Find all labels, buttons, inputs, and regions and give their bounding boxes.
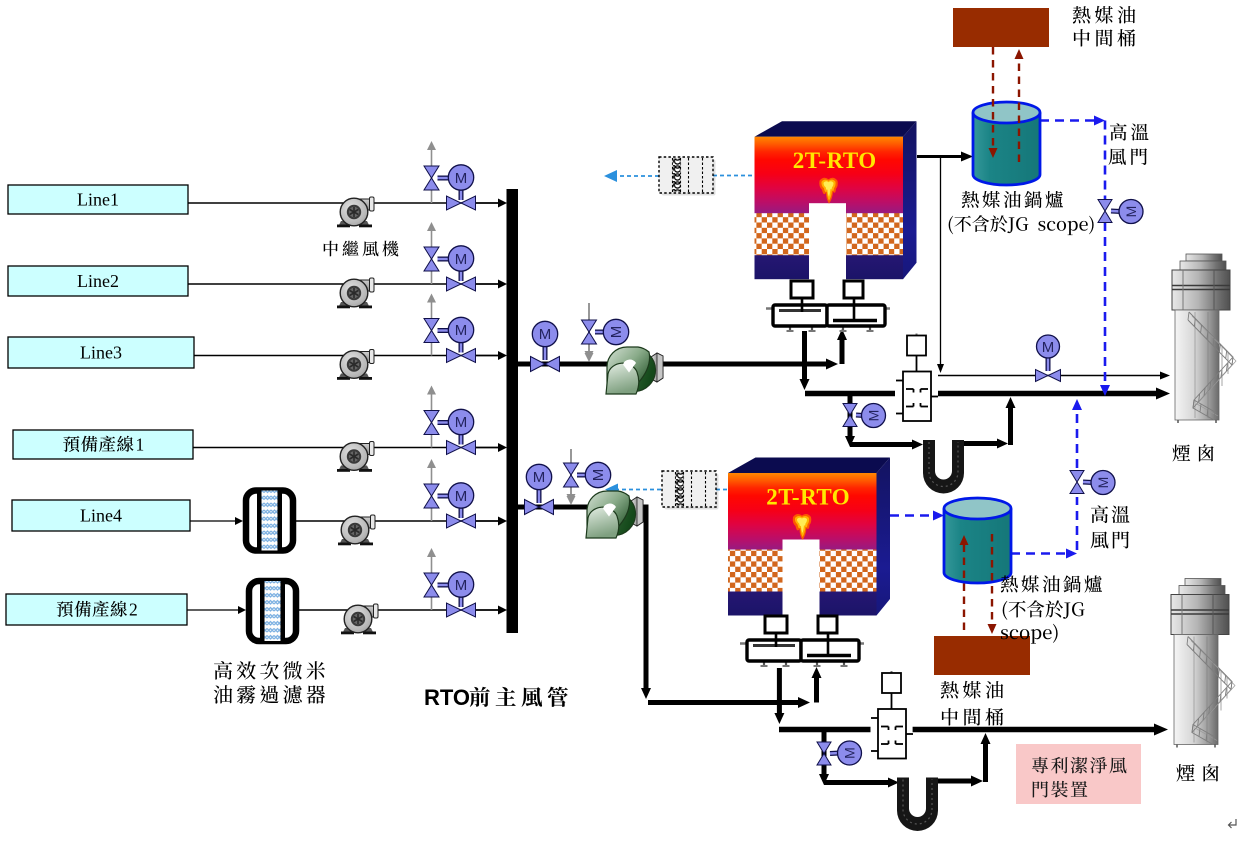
svg-text:2: 2 xyxy=(129,600,138,620)
svg-text:M: M xyxy=(533,469,546,486)
svg-text:M: M xyxy=(455,251,468,268)
svg-text:M: M xyxy=(455,488,468,505)
svg-text:M: M xyxy=(455,322,468,339)
svg-text:Line2: Line2 xyxy=(77,271,119,291)
svg-text:M: M xyxy=(865,410,881,422)
svg-text:M: M xyxy=(455,414,468,431)
svg-text:1: 1 xyxy=(136,435,145,455)
svg-text:M: M xyxy=(1123,206,1139,218)
svg-text:M: M xyxy=(841,747,857,759)
svg-text:2T-RTO: 2T-RTO xyxy=(766,485,850,510)
svg-text:M: M xyxy=(539,326,552,343)
svg-text:M: M xyxy=(455,170,468,187)
svg-text:2T-RTO: 2T-RTO xyxy=(793,148,877,173)
svg-text:Line4: Line4 xyxy=(80,506,122,526)
svg-text:Line1: Line1 xyxy=(77,190,119,210)
svg-text:Line3: Line3 xyxy=(80,343,122,363)
svg-text:RTO: RTO xyxy=(424,685,470,710)
svg-text:M: M xyxy=(590,469,607,482)
svg-text:M: M xyxy=(455,577,468,594)
svg-text:M: M xyxy=(1095,477,1111,489)
svg-text:M: M xyxy=(1042,339,1055,356)
svg-text:M: M xyxy=(608,326,625,339)
